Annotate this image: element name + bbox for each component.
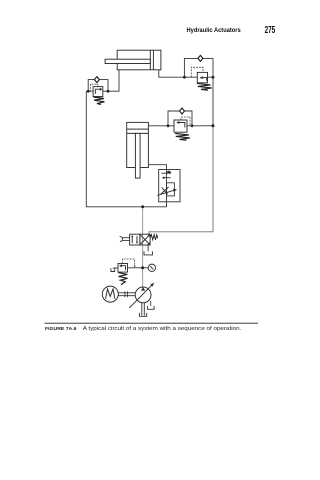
piston C1 [149,50,151,70]
sequence valve V1 check loop [88,80,94,92]
node: gauge junction [141,266,144,269]
relief valve V4 body [118,264,128,273]
DCV tank stub [147,245,149,251]
pressure gauge G1 [148,264,155,271]
sequence valve V2 spring [197,83,212,90]
sequence valve V2 check loop [184,58,198,77]
DCV crossed arrows [141,235,150,244]
pump P1 variable arrow [129,286,151,308]
wire: left bus from left valve down and right to pump junction [86,91,142,207]
wire: right valve through line [184,76,213,78]
relief valve V4 spring [118,273,127,285]
tank T3 (suction) [139,313,146,316]
wire: cylinder2 top port to middle valve and right bus [148,125,213,127]
DCV parallel arrows [131,237,133,244]
sequence valve V2 body [197,72,207,82]
check valve CV2 [198,55,203,61]
node: pump line junction [141,205,144,208]
sequence valve V2 pilot line [191,67,203,77]
sequence valve V3 body [174,120,187,132]
wire: gauge stub [143,267,149,269]
node: V3 right junction [191,124,194,127]
flow control valve FC1 throttle arcs [161,187,169,194]
node: V2 right junction [212,76,215,79]
pump P1 variable displacement [135,287,151,303]
wire: center supply line from junction through DCV to pump [142,207,144,288]
wire: cylinder1 rod-end port down to left valve line [108,70,119,91]
tank T1 (DCV) [144,251,152,255]
check valve CV3 [180,108,185,114]
flow control valve FC1 outer box [159,170,180,202]
sequence valve V1 pilot line [91,84,98,91]
DCV 4/2 valve body [130,234,150,245]
flow control valve FC1 check symbol [162,171,172,179]
wire: cylinder2 bottom port through flow control down to junction [143,165,167,207]
piston rod C1 [105,59,150,63]
svg-text:Hydraulic Actuators: Hydraulic Actuators [187,28,242,34]
DCV spring [150,235,158,240]
wire: right bus lower, into DCV top port [149,126,213,234]
sequence valve V3 spring [175,133,190,140]
piston rod C2 [135,133,140,178]
wire: left valve through line [86,90,108,92]
wire: cylinder1 cap-end port to right valve [159,70,185,77]
shaft coupling [118,291,135,297]
sequence valve V3 check loop [168,111,180,126]
wire: pump drain line [150,301,152,306]
check valve CV1 [94,77,99,83]
svg-text:275: 275 [265,25,276,36]
piston C2 [127,128,149,130]
svg-text:A typical circuit of a system: A typical circuit of a system with a seq… [83,326,242,332]
wire: pump suction lines [141,302,143,315]
node: V1 right junction [107,90,110,93]
relief valve V4 drain line [113,267,118,269]
wire: right bus upper [212,58,214,125]
relief valve V4 pilot line [122,259,134,266]
cylinder C2 vertical [127,122,149,178]
node: V3 left junction [167,124,170,127]
node: V1 left junction [87,90,90,93]
flow control valve FC1 throttle box [167,183,175,196]
tank T2 (relief drain) [111,268,115,271]
wire: relief valve to junction [128,267,143,269]
svg-text:FIGURE 7A.6: FIGURE 7A.6 [45,326,77,332]
sequence valve V1 body [93,87,103,97]
cylinder C1 horizontal [105,50,161,70]
node: right bus junction [212,124,215,127]
electric motor M1 [102,286,118,302]
caption rule [44,322,258,324]
DCV lever actuator [120,236,130,241]
flow control valve FC1 arrow [157,190,173,195]
sequence valve V3 pilot line [181,117,190,126]
sequence valve V1 spring [94,97,105,104]
tank T4 (drain) [148,306,155,309]
node: V2 left junction [183,76,186,79]
